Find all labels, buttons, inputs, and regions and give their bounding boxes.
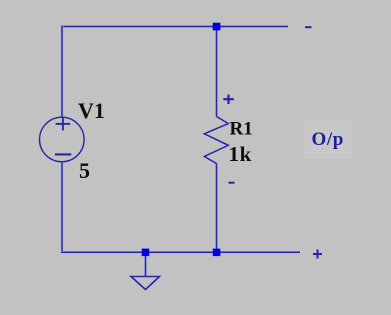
O/p highlight box bbox=[304, 120, 352, 159]
junction node top bbox=[213, 23, 221, 31]
svg-text:O/p: O/p bbox=[312, 129, 344, 150]
wire left vertical upper bbox=[61, 26, 64, 118]
wire left vertical lower bbox=[61, 162, 64, 253]
wire top horizontal bbox=[61, 25, 288, 28]
resistor minus polarity mark bbox=[229, 182, 235, 184]
wire right vertical lower bbox=[215, 164, 218, 253]
V1 plus sign bbox=[56, 118, 71, 131]
svg-text:R1: R1 bbox=[230, 119, 253, 140]
svg-text:1k: 1k bbox=[229, 142, 252, 166]
junction node bottom right bbox=[213, 249, 221, 257]
voltage source V1 circle bbox=[40, 117, 85, 162]
svg-text:5: 5 bbox=[79, 158, 90, 183]
ground stub wire bbox=[144, 252, 147, 276]
wire right vertical upper bbox=[215, 27, 218, 117]
wire bottom horizontal bbox=[61, 251, 300, 254]
svg-text:V1: V1 bbox=[78, 98, 105, 123]
V1 minus sign bbox=[55, 153, 71, 155]
ground bbox=[131, 277, 160, 290]
resistor R1 zigzag bbox=[204, 117, 228, 164]
resistor plus polarity mark bbox=[223, 95, 234, 104]
output plus terminal mark bbox=[313, 250, 322, 259]
junction node bottom left (ground) bbox=[142, 249, 150, 257]
output minus terminal mark bbox=[305, 26, 312, 28]
